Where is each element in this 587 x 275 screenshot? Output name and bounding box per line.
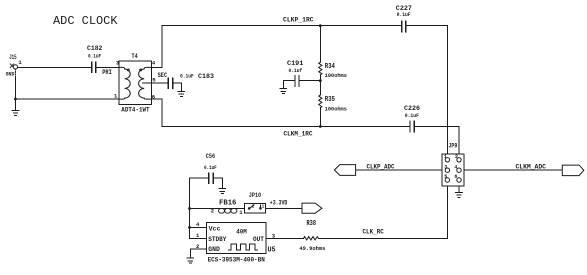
svg-text:CLKM_1RC: CLKM_1RC (284, 131, 313, 138)
svg-text:40M: 40M (236, 229, 247, 236)
ferrite bead FB16 (211, 200, 244, 216)
svg-text:STDBY: STDBY (208, 236, 226, 243)
oscillator U5 (196, 221, 276, 263)
secondary winding (139, 67, 152, 99)
ground (12, 110, 19, 115)
svg-text:1: 1 (239, 209, 243, 216)
svg-text:1: 1 (262, 204, 265, 209)
resistor R34 (319, 26, 347, 81)
svg-text:C182: C182 (87, 45, 102, 52)
svg-text:CLKP_1RC: CLKP_1RC (283, 17, 314, 24)
connector JP9 (442, 142, 464, 186)
capacitor C183 (168, 73, 214, 88)
svg-text:0.1uF: 0.1uF (180, 73, 194, 79)
wire power bus vertical (189, 178, 191, 238)
svg-text:6: 6 (454, 174, 457, 180)
svg-text:0.1uF: 0.1uF (204, 165, 217, 171)
wire U5 pin3 to R38 (266, 237, 304, 239)
svg-text:PRI: PRI (102, 69, 112, 76)
svg-text:0.1uF: 0.1uF (397, 12, 411, 18)
svg-text:1: 1 (114, 93, 118, 100)
port CLKP_ADC (334, 164, 394, 176)
resistor R38 (299, 220, 325, 252)
wire T4 pin6 down to bottom rail (152, 99, 162, 126)
wire J15 pin1 to C182 (18, 66, 92, 68)
svg-text:+3.3VD: +3.3VD (270, 200, 288, 207)
svg-text:T4: T4 (132, 53, 138, 60)
svg-text:2: 2 (252, 204, 255, 209)
wire bottom rail CLKM_1RC (162, 126, 459, 128)
wire R38 to JP9 pin5 CLK_RC (319, 237, 448, 239)
svg-text:C191: C191 (287, 60, 303, 67)
svg-text:SEC: SEC (158, 72, 168, 79)
wire bus to FB16 (190, 208, 219, 210)
svg-text:100ohms: 100ohms (325, 73, 347, 79)
ground (219, 189, 226, 194)
junction (14, 98, 17, 101)
junction (319, 79, 322, 82)
wire U5 pin1 (190, 237, 207, 239)
ground (178, 91, 185, 96)
wire FB16 to JP10 (237, 208, 244, 210)
svg-text:CLK_RC: CLK_RC (363, 229, 384, 236)
svg-text:49.9ohms: 49.9ohms (299, 246, 325, 252)
svg-text:0.1uf: 0.1uf (289, 68, 303, 74)
svg-text:R35: R35 (325, 96, 335, 104)
svg-text:GND: GND (6, 71, 15, 78)
ground (280, 89, 287, 94)
svg-text:5: 5 (444, 174, 447, 180)
jumper JP10 (244, 192, 265, 213)
svg-text:C183: C183 (198, 73, 214, 80)
svg-text:CLKP_ADC: CLKP_ADC (367, 164, 395, 171)
svg-text:0.1uF: 0.1uF (405, 113, 419, 119)
capacitor C226 (404, 105, 420, 132)
wire T4 pin5 to C183 (152, 82, 169, 84)
svg-text:U5: U5 (268, 247, 276, 255)
ground (187, 258, 194, 263)
svg-text:J15: J15 (9, 54, 17, 61)
wire top rail CLKP_1RC (162, 25, 448, 27)
wire CLKP down to JP9 pin1 (446, 26, 448, 160)
svg-text:JP9: JP9 (449, 142, 458, 149)
svg-text:1: 1 (444, 154, 447, 160)
svg-text:OUT: OUT (253, 236, 264, 243)
wire U5 pin2 to ground (190, 249, 206, 258)
connector J15 (6, 54, 23, 77)
svg-text:3: 3 (444, 164, 447, 170)
capacitor C191 (283, 60, 320, 89)
port CLKM_ADC (516, 164, 584, 176)
svg-text:C56: C56 (206, 153, 215, 160)
wire C183 to ground (173, 83, 181, 91)
svg-text:C226: C226 (404, 105, 420, 112)
resistor R35 (319, 81, 347, 127)
wire J15 shield down (14, 77, 16, 110)
power +3.3VD (270, 200, 322, 214)
wire C182 to T4 pin3 (96, 66, 119, 68)
svg-text:ADT4-1WT: ADT4-1WT (121, 107, 150, 114)
svg-text:5: 5 (152, 76, 156, 83)
svg-text:FB16: FB16 (219, 200, 236, 208)
primary winding (119, 67, 130, 99)
svg-text:4: 4 (152, 59, 156, 66)
wire J15 to T4 pin1 (15, 98, 119, 100)
junction (188, 226, 191, 229)
svg-text:R34: R34 (325, 63, 335, 71)
svg-text:2: 2 (455, 154, 458, 160)
svg-text:R38: R38 (307, 220, 317, 228)
svg-text:100ohms: 100ohms (325, 106, 347, 112)
svg-text:4: 4 (454, 164, 457, 170)
svg-text:CLKM_ADC: CLKM_ADC (516, 164, 547, 171)
capacitor C227 (396, 5, 412, 32)
svg-text:1: 1 (18, 59, 22, 66)
svg-text:0.1uF: 0.1uF (88, 54, 101, 60)
wire JP9 pin5 down to CLK_RC (446, 180, 448, 238)
wire CLKP_ADC to JP9 pin3 (356, 169, 447, 171)
svg-text:JP10: JP10 (249, 192, 261, 199)
ground (456, 192, 463, 197)
wire JP9 pin4 to CLKM_ADC (459, 169, 562, 171)
svg-text:GND: GND (208, 246, 220, 253)
secondary center tap (142, 82, 151, 84)
svg-text:ECS-3953M-400-BN: ECS-3953M-400-BN (208, 256, 265, 263)
wire JP10 to +3.3VD (266, 208, 302, 210)
svg-text:Vcc: Vcc (209, 226, 221, 233)
capacitor C182 (87, 45, 102, 72)
wire JP9 pin6 to ground (458, 180, 460, 192)
junction (319, 125, 322, 128)
wire T4 pin4 up to top rail (152, 26, 162, 68)
junction (319, 24, 322, 27)
wire U5 pin4 (190, 226, 207, 228)
svg-text:ADC CLOCK: ADC CLOCK (53, 14, 118, 28)
junction (188, 207, 191, 210)
wire CLKM down to JP9 pin2 (458, 127, 460, 160)
svg-text:C227: C227 (396, 5, 412, 12)
transformer T4 (102, 53, 167, 113)
capacitor C56 (190, 153, 223, 188)
